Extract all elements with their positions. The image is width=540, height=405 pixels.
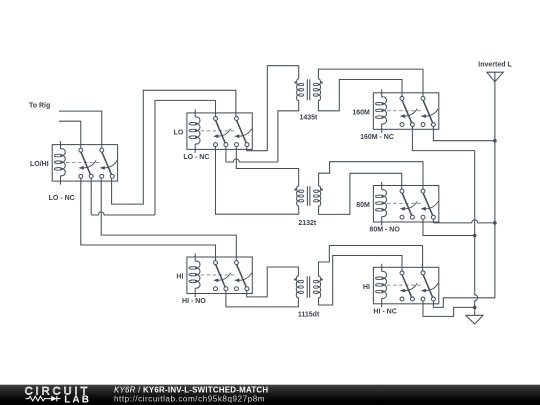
wire K4 pole2 NO to antenna bus <box>433 126 495 141</box>
svg-text:80M: 80M <box>356 202 370 209</box>
wire K5 pole2 NC to ground bus <box>423 219 475 236</box>
wire K4 pole1 NO to ground bus <box>412 126 474 151</box>
svg-text:1435t: 1435t <box>299 115 318 122</box>
logo diode <box>51 396 57 401</box>
wire T3 right bottom to K6 pole1 COM <box>319 256 403 306</box>
wire T2 right bottom to K5 pole1 COM <box>319 173 402 214</box>
svg-text:HI - NO: HI - NO <box>182 298 206 305</box>
wire K2 pole2 NO to T1 left top <box>247 66 299 151</box>
wire rig lower to K1 pole1 COM <box>59 121 81 148</box>
wire K2 pole1 NO to T1 left bottom <box>225 146 227 162</box>
wire K1 pole2 NO to K2 pole2 COM <box>112 90 236 204</box>
svg-text:160M: 160M <box>352 109 370 116</box>
wire K2 pole1 NC to T2 left bottom <box>216 146 299 214</box>
svg-text:HI - NC: HI - NC <box>373 308 396 315</box>
relay K2 LO <box>187 113 252 149</box>
svg-text:LO/HI: LO/HI <box>30 161 49 168</box>
svg-text:To Rig: To Rig <box>29 103 50 110</box>
footer bar <box>0 385 540 405</box>
wire K1 pole2 NC to K3 pole2 COM <box>101 178 236 261</box>
wire K3 pole1 NO to T3 left bottom <box>226 290 299 307</box>
ground <box>466 315 484 324</box>
svg-text:Inverted L: Inverted L <box>478 61 512 68</box>
svg-text:http://circuitlab.com/ch95k8q9: http://circuitlab.com/ch95k8q927p8m <box>114 395 265 404</box>
wire K6 pole2 NC to ground bus <box>423 301 475 317</box>
svg-text:LO - NC: LO - NC <box>183 154 209 161</box>
antenna Inverted L <box>487 72 504 82</box>
svg-text:LAB: LAB <box>64 394 91 405</box>
node antenna-80M junction <box>493 221 497 225</box>
wire K1 pole1 NC to K3 pole1 COM <box>81 178 216 261</box>
svg-text:KY6R / KY6R-INV-L-SWITCHED-MAT: KY6R / KY6R-INV-L-SWITCHED-MATCH <box>114 386 268 395</box>
svg-text:LO - NC: LO - NC <box>49 195 75 202</box>
node ground-80M junction <box>473 234 477 238</box>
wire T3 right top to K6 pole2 COM <box>319 246 423 277</box>
wire antenna bus <box>433 82 495 308</box>
wire K3 pole2 NO to T3 left top <box>247 267 299 297</box>
transformer T2 2132t <box>297 186 299 206</box>
wire T1 right top to K4 pole2 COM <box>318 69 423 96</box>
svg-text:160M - NC: 160M - NC <box>360 134 394 141</box>
wire ground bus vertical <box>475 151 478 316</box>
transformer T1 1435t <box>297 79 299 100</box>
wire T2 right top to K5 pole2 COM <box>319 162 423 189</box>
relay K1 LO/HI <box>52 145 117 182</box>
relay K5 80M <box>373 186 438 223</box>
relay K4 160M <box>373 93 438 130</box>
wire K1 pole1 NO to K2 pole1 COM <box>90 178 92 215</box>
relay K6 HI <box>373 267 438 304</box>
svg-text:1115dt: 1115dt <box>298 311 320 318</box>
svg-text:HI: HI <box>363 284 370 291</box>
node ground-HI junction <box>473 306 477 310</box>
wire rig upper to K1 pole2 COM <box>59 111 102 148</box>
svg-text:LO: LO <box>174 130 184 137</box>
wire K2 pole2 NC to T2 left top <box>236 146 298 186</box>
transformer T3 1115dt <box>296 276 298 298</box>
wire K5 pole2 NO to antenna bus <box>432 219 434 223</box>
relay K3 HI <box>187 257 252 294</box>
wire T1 right bottom to K4 pole1 COM <box>318 80 402 111</box>
svg-text:HI: HI <box>176 274 183 281</box>
node antenna-160M junction <box>493 139 497 143</box>
svg-text:80M - NO: 80M - NO <box>369 227 400 234</box>
logo resistor <box>26 396 52 401</box>
svg-text:2132t: 2132t <box>298 220 317 227</box>
